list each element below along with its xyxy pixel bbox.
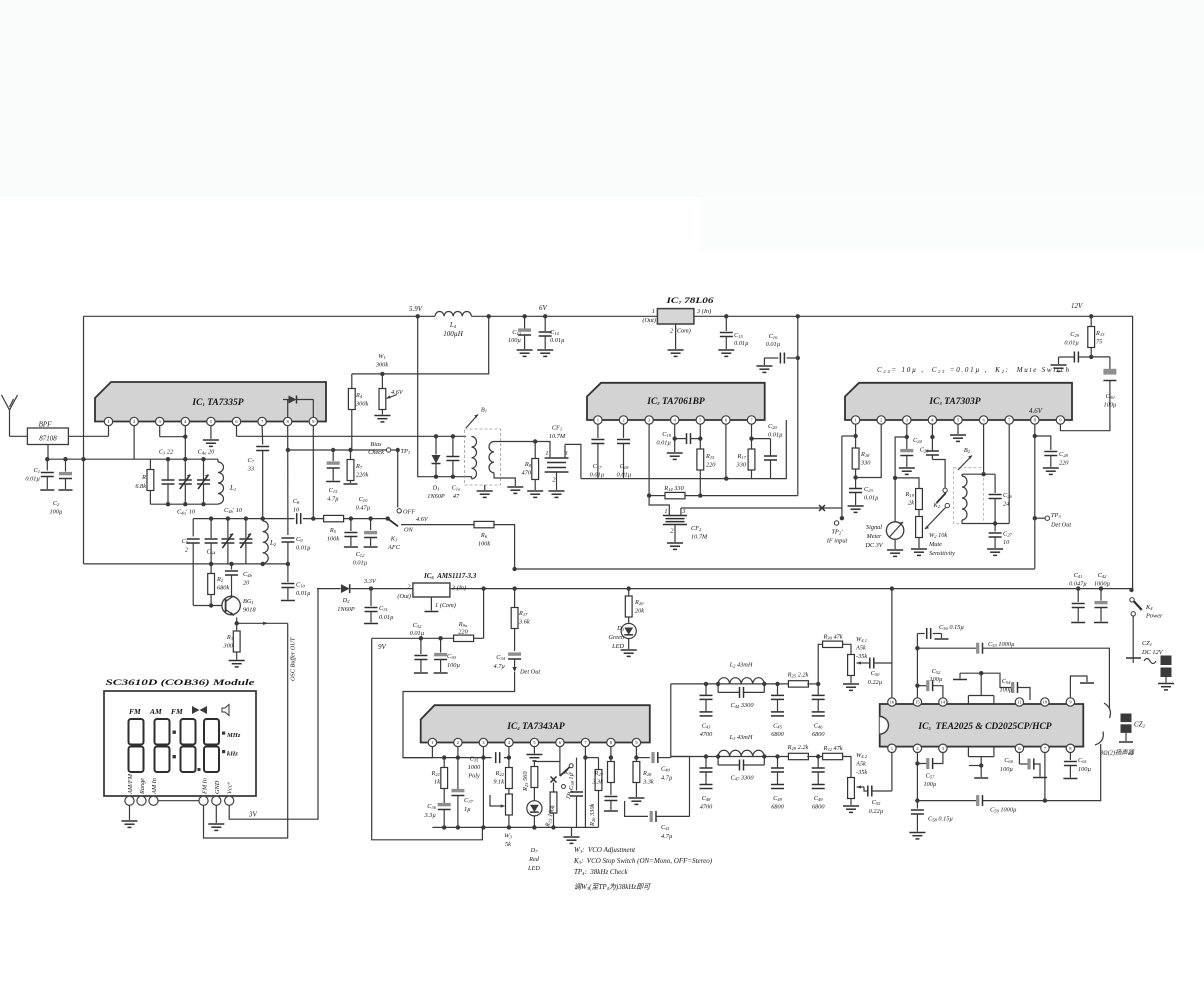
wire 6V power rail top — [84, 316, 1133, 590]
ground IC1 pin5 — [203, 426, 219, 447]
svg-text:6.8k: 6.8k — [135, 483, 146, 490]
resistor R15 220 — [697, 424, 716, 498]
svg-text:-35k: -35k — [856, 653, 867, 660]
resistor R18 330 — [842, 424, 871, 488]
svg-text:300k: 300k — [355, 401, 368, 408]
wire IC4 pin3 drop — [481, 758, 485, 830]
LED D3 green — [608, 623, 636, 656]
svg-text:IC4 TA7343AP: IC4 TA7343AP — [506, 722, 565, 732]
svg-text:C43: C43 — [702, 722, 712, 729]
node 9V rail — [372, 586, 486, 651]
capacitor C18 0.01u — [617, 424, 632, 478]
svg-text:3.3k: 3.3k — [642, 779, 654, 786]
svg-text:BG1: BG1 — [243, 598, 254, 605]
capacitor C30 100u — [1091, 357, 1117, 409]
svg-text:FM: FM — [129, 707, 141, 716]
svg-text:R29 2.2k: R29 2.2k — [787, 744, 809, 751]
svg-text:R19: R19 — [905, 491, 915, 498]
jack CZ1 DC 12V — [1126, 616, 1174, 690]
IC1 internal diode loop — [283, 396, 313, 418]
capacitor C41 0.047u — [1069, 572, 1087, 623]
speaker connector break top — [1104, 703, 1110, 718]
capacitor C32 0.01u — [410, 622, 428, 673]
svg-text:C18: C18 — [620, 463, 630, 470]
wire TP2 entry — [826, 436, 848, 545]
svg-text:Meter: Meter — [865, 533, 882, 540]
BPF 87108 filter — [27, 421, 108, 460]
svg-text:4.7µ: 4.7µ — [661, 833, 673, 840]
node TP3 Det Out — [1033, 512, 1072, 529]
capacitor C42 1000u — [1094, 572, 1111, 623]
svg-text:470: 470 — [522, 470, 532, 477]
IC1 TA7335P block — [95, 382, 326, 426]
svg-text:W1: W1 — [378, 353, 386, 360]
svg-text:IC1 TA7335P: IC1 TA7335P — [191, 398, 243, 408]
capacitor C1 0.01u — [25, 457, 54, 490]
svg-text:100µ: 100µ — [929, 676, 942, 683]
resistor R17 330 — [736, 424, 755, 478]
svg-text:1µ: 1µ — [464, 806, 471, 813]
filter top channel L2a — [671, 661, 826, 738]
variable capacitor C4A trim — [197, 457, 210, 504]
svg-text:6800: 6800 — [812, 804, 825, 811]
svg-text:C19: C19 — [662, 431, 672, 438]
wire IC3 pin2 loop — [856, 424, 882, 477]
resistor R23 560 — [522, 762, 560, 801]
IC5 pins 4-5 bridge — [967, 747, 969, 757]
svg-text:R5: R5 — [329, 527, 337, 534]
ground IC4 pin5 — [526, 747, 542, 761]
discriminator B2 — [954, 424, 996, 523]
svg-text:C47 3300: C47 3300 — [731, 775, 755, 782]
svg-text:L2 43mH: L2 43mH — [729, 661, 753, 668]
signal meter — [864, 437, 906, 556]
wire B1 secondary top to CF1 — [494, 439, 550, 457]
wire IC5 pin9 ground — [1070, 676, 1094, 698]
wire IC5 pins12-13 riser — [953, 671, 983, 696]
module band icons — [129, 705, 229, 717]
svg-text:4.6V: 4.6V — [1029, 407, 1043, 415]
svg-text:3 (In): 3 (In) — [696, 308, 711, 315]
capacitor C17 0.01u — [590, 424, 605, 478]
LED D7 red — [527, 801, 542, 872]
node 6V — [487, 304, 548, 318]
capacitor C55 0.22u — [864, 786, 892, 816]
wire IC1 pin6 to IF line — [237, 426, 467, 437]
svg-text:100µ: 100µ — [447, 662, 460, 669]
resistor R17b 3.6k — [511, 589, 530, 651]
svg-text:10: 10 — [1043, 700, 1048, 705]
resistor R3 300 — [223, 618, 245, 667]
svg-text:C54: C54 — [1002, 678, 1012, 685]
wire TP1 to K1 — [397, 450, 399, 508]
svg-text:C10: C10 — [359, 496, 369, 503]
svg-text:3V: 3V — [248, 811, 258, 819]
svg-text:R14 330: R14 330 — [663, 485, 684, 492]
resistor R1 6.8k — [135, 459, 153, 504]
capacitor C57 100u — [917, 753, 943, 789]
svg-text:0.22µ: 0.22µ — [869, 808, 884, 815]
svg-text:9.1k: 9.1k — [493, 779, 504, 786]
svg-text:0.01µ: 0.01µ — [296, 590, 311, 597]
svg-text:C3 22: C3 22 — [159, 449, 174, 456]
switch K3 — [551, 747, 574, 783]
svg-text:C42: C42 — [1098, 572, 1108, 579]
capacitor C28 220 — [1033, 424, 1070, 569]
capacitor C5 2 — [182, 519, 223, 606]
svg-text:R23 560: R23 560 — [522, 771, 529, 792]
svg-text:C56 0.15µ: C56 0.15µ — [939, 624, 964, 631]
capacitor C16 0.01u — [756, 314, 800, 496]
capacitor C19 0.01u — [656, 424, 702, 459]
wire IC2 pin6 drop — [725, 424, 727, 478]
svg-text:C38 1µ: C38 1µ — [568, 772, 575, 790]
label Bias Check TP1 — [368, 441, 410, 456]
svg-text:4700: 4700 — [700, 804, 713, 811]
wire IC3 return rail — [515, 568, 1035, 570]
svg-text:IC5 TEA2025 & CD2025CP/HCP: IC5 TEA2025 & CD2025CP/HCP — [917, 722, 1051, 732]
IC5 TEA2025 block — [880, 696, 1084, 757]
wire 3.3V rail — [317, 567, 1134, 592]
capacitor C29 0.01u — [1051, 331, 1090, 371]
svg-text:CF1: CF1 — [552, 425, 562, 432]
wire top channel to R26 — [671, 634, 851, 758]
svg-text:9018: 9018 — [243, 607, 256, 614]
svg-text:100µ: 100µ — [999, 687, 1012, 694]
svg-text:调W3(至TP4为)38kHz即可: 调W3(至TP4为)38kHz即可 — [574, 883, 651, 891]
svg-text:D1: D1 — [432, 485, 440, 492]
svg-text:24: 24 — [1003, 501, 1009, 508]
wire Det Out to IC4 pin1 — [403, 672, 515, 758]
variable capacitor C4B trim — [239, 516, 252, 564]
svg-text:3.3k: 3.3k — [591, 779, 603, 786]
svg-text:11: 11 — [1017, 700, 1022, 705]
svg-text:0.01µ: 0.01µ — [617, 472, 632, 479]
svg-text:680k: 680k — [217, 585, 229, 592]
svg-text:8Ω(2)扬声器: 8Ω(2)扬声器 — [1100, 749, 1135, 757]
wire IC5 pin2 column — [915, 753, 919, 809]
svg-text:0.01µ: 0.01µ — [864, 495, 879, 502]
wire bias line — [288, 448, 400, 452]
ground IC3 pin5 — [950, 424, 966, 441]
svg-text:16: 16 — [890, 700, 895, 705]
svg-text:(Out): (Out) — [642, 317, 656, 324]
svg-text:A5k: A5k — [855, 761, 866, 768]
capacitor C9 0.01u — [281, 536, 311, 566]
svg-text:W2 10k: W2 10k — [929, 532, 947, 539]
capacitor C61 100u — [1063, 753, 1091, 779]
svg-text:2k: 2k — [908, 500, 914, 507]
svg-text:IC7 78L06: IC7 78L06 — [665, 295, 714, 305]
svg-text:R17: R17 — [518, 610, 528, 617]
svg-text:220: 220 — [706, 462, 716, 469]
switch K2 — [932, 460, 949, 510]
capacitor C50 0.22u — [866, 658, 892, 687]
wire IF line to TP2 — [681, 505, 842, 511]
resistor R6 100k — [401, 516, 515, 569]
wire 5.9V drop — [418, 316, 472, 476]
svg-text:C16: C16 — [769, 333, 779, 340]
svg-text:DC 3V: DC 3V — [864, 542, 883, 549]
wire B1 secondary bottom — [494, 473, 523, 494]
svg-text:AM In: AM In — [151, 778, 158, 795]
svg-text:TP1: TP1 — [401, 448, 411, 455]
svg-text:R: R — [141, 474, 146, 481]
svg-text:TP2': TP2' — [831, 529, 843, 536]
svg-text:C61: C61 — [1078, 757, 1087, 764]
svg-text:6V: 6V — [539, 304, 548, 312]
speaker connector break bottom — [1095, 732, 1103, 746]
svg-text:Vcc°: Vcc° — [227, 782, 234, 794]
svg-text:SC3610D (COB36) Module: SC3610D (COB36) Module — [106, 677, 255, 687]
svg-text:C45: C45 — [773, 722, 783, 729]
capacitor C27 10 — [987, 524, 1012, 556]
svg-text:220: 220 — [458, 629, 468, 636]
capacitor C1a 47 — [446, 434, 461, 500]
variable capacitor C4B — [221, 516, 234, 564]
svg-text:Det Out: Det Out — [519, 669, 540, 676]
wire IC1 pin2 drop to AGC line — [47, 426, 150, 460]
svg-text:C49: C49 — [773, 795, 783, 802]
svg-text:B2: B2 — [964, 447, 971, 454]
wire OSC buffer out — [204, 622, 297, 838]
svg-text:4700: 4700 — [700, 731, 713, 738]
svg-text:10.7M: 10.7M — [691, 534, 708, 541]
svg-text:C5: C5 — [182, 538, 189, 545]
svg-text:47: 47 — [453, 493, 460, 500]
capacitor C2 100u — [49, 457, 72, 516]
potentiometer W4.1 — [843, 636, 867, 690]
wire IC5 pin16 feed — [890, 586, 894, 697]
svg-text:1000µ: 1000µ — [1094, 581, 1111, 588]
svg-text:5k: 5k — [505, 841, 511, 848]
resistor R7 220k — [344, 450, 369, 484]
svg-text:C2: C2 — [53, 500, 60, 507]
svg-text:Green: Green — [608, 634, 624, 641]
IC4 TA7343AP block — [421, 705, 650, 747]
svg-text:0.01µ: 0.01µ — [353, 560, 368, 567]
svg-text:D2: D2 — [342, 597, 351, 604]
svg-text:R15: R15 — [705, 453, 715, 460]
capacitor C8 10 — [293, 498, 301, 524]
svg-text:C44 3300: C44 3300 — [731, 702, 755, 709]
svg-text:R18: R18 — [860, 451, 870, 458]
svg-text:6800: 6800 — [771, 731, 784, 738]
module pins left — [125, 796, 158, 805]
svg-text:AM: AM — [149, 707, 162, 716]
svg-text:C30: C30 — [1106, 393, 1116, 400]
ceramic filter CF2 10.7M — [649, 496, 708, 550]
svg-text:C52: C52 — [932, 668, 942, 675]
svg-text:C1: C1 — [34, 467, 41, 474]
capacitor C26 24 — [989, 474, 1013, 526]
svg-text:OFF: OFF — [403, 509, 415, 516]
resistor R27 3.3k — [591, 747, 618, 811]
capacitor C15 0.01u — [718, 314, 749, 356]
switch K4 power — [1130, 598, 1163, 620]
svg-text:R30 47k: R30 47k — [822, 634, 842, 641]
resistor R20 20k — [625, 586, 644, 623]
wire IC5 pin7 drop — [1043, 753, 1047, 803]
capacitor C15 4.7u bias — [326, 450, 340, 503]
svg-text:330: 330 — [736, 462, 747, 469]
svg-text:100µ: 100µ — [1000, 766, 1013, 773]
transistor BG1 9018 — [222, 596, 257, 616]
svg-text:R3: R3 — [226, 634, 234, 641]
filter bottom channel L3 — [671, 734, 826, 811]
svg-text:C4b: C4b — [243, 571, 253, 578]
svg-text:IC6 AMS1117-3.3: IC6 AMS1117-3.3 — [423, 572, 477, 580]
wire IC2 pin3 column — [647, 424, 651, 498]
resistor R4 300k — [348, 374, 368, 450]
resistor R5 100k — [324, 515, 344, 542]
svg-text:87108: 87108 — [39, 435, 57, 443]
svg-text:100µ: 100µ — [49, 509, 62, 516]
capacitor C56 0.15u — [917, 624, 964, 648]
variable capacitor C4A — [179, 449, 215, 505]
wire IC2 caps bottom line — [581, 420, 786, 481]
svg-text:LED: LED — [611, 643, 624, 650]
svg-text:C41: C41 — [661, 824, 670, 831]
svg-text:C4a 20: C4a 20 — [198, 449, 216, 456]
svg-text:-35k: -35k — [856, 769, 867, 776]
capacitor C11 — [344, 516, 358, 547]
svg-text:C48: C48 — [702, 795, 712, 802]
svg-text:6800: 6800 — [812, 731, 825, 738]
svg-text:C37: C37 — [464, 797, 474, 804]
svg-text:0.01µ: 0.01µ — [734, 340, 749, 347]
svg-text:C36: C36 — [427, 803, 437, 810]
svg-text:4.6V: 4.6V — [416, 516, 429, 523]
svg-text:3 (In): 3 (In) — [451, 585, 466, 592]
svg-text:4.7µ: 4.7µ — [494, 663, 506, 670]
svg-text:0.01µ: 0.01µ — [410, 630, 425, 637]
svg-text:R28: R28 — [642, 770, 652, 777]
svg-text:C24= 10µ , C25 =0.01µ , K2:: C24= 10µ , C25 =0.01µ , K2: Mute Switch — [877, 366, 1070, 374]
svg-text:0.47µ: 0.47µ — [356, 505, 371, 512]
svg-text:33: 33 — [247, 466, 254, 473]
svg-text:R6: R6 — [480, 532, 488, 539]
wire tank1 bottom — [150, 502, 242, 516]
svg-text:1: 1 — [545, 450, 548, 457]
wire big loop left vertical — [83, 316, 85, 564]
svg-text:6800: 6800 — [771, 804, 784, 811]
switch K1 AFC — [386, 509, 416, 552]
svg-text:100µH: 100µH — [443, 330, 464, 338]
capacitor C14 0.01u — [537, 316, 565, 356]
svg-text:3.3µ: 3.3µ — [424, 812, 437, 819]
wire IC4 ground rail — [432, 825, 598, 843]
svg-text:10: 10 — [293, 507, 300, 514]
svg-text:14: 14 — [941, 700, 946, 705]
svg-text:C59 1000µ: C59 1000µ — [990, 807, 1017, 814]
svg-text:C46: C46 — [814, 722, 824, 729]
svg-text:K1: K1 — [390, 536, 398, 543]
svg-text:R22: R22 — [495, 770, 505, 777]
svg-text:3.3V: 3.3V — [363, 578, 377, 585]
svg-text:C14: C14 — [550, 329, 560, 336]
capacitor C10 0.01u — [281, 564, 311, 601]
svg-text:Signal: Signal — [866, 524, 882, 531]
diode D2 1N60P — [337, 578, 377, 613]
svg-text:1N60P: 1N60P — [337, 606, 355, 613]
svg-text:L3 43mH: L3 43mH — [729, 734, 753, 741]
svg-text:1: 1 — [664, 508, 667, 515]
svg-text:C41: C41 — [1074, 572, 1083, 579]
svg-text:C50: C50 — [871, 670, 881, 677]
node 12V — [1071, 302, 1093, 318]
capacitor C25 — [920, 424, 939, 459]
svg-text:DC 12V: DC 12V — [1141, 649, 1164, 656]
svg-text:IC2 TA7061BP: IC2 TA7061BP — [646, 397, 705, 407]
svg-text:330: 330 — [860, 460, 871, 467]
svg-text:C29: C29 — [1070, 331, 1080, 338]
svg-text:R20: R20 — [634, 599, 644, 606]
svg-text:IF input: IF input — [826, 538, 848, 545]
inductor L1 — [218, 459, 236, 504]
svg-text:10: 10 — [1003, 539, 1010, 546]
resistor R32 47k bottom — [818, 745, 851, 778]
svg-text:12V: 12V — [1071, 302, 1083, 310]
svg-text:kHz: kHz — [227, 751, 238, 758]
resistor R14 330 — [649, 485, 798, 499]
svg-text:300: 300 — [223, 643, 234, 650]
svg-text:W3: VCO Adjustment: W3: VCO Adjustment — [574, 846, 636, 854]
speaker CZ2 — [1100, 714, 1146, 757]
svg-text:220k: 220k — [356, 472, 368, 479]
svg-text:BPF: BPF — [39, 421, 53, 429]
IC7 78L06 regulator — [642, 295, 714, 356]
svg-text:0.01µ: 0.01µ — [766, 341, 781, 348]
svg-text:Check: Check — [368, 449, 384, 456]
capacitor C59 1000u — [917, 744, 1100, 814]
svg-text:C24: C24 — [913, 437, 923, 444]
svg-text:C4a' 10: C4a' 10 — [177, 509, 196, 516]
wire B2 bottom line — [962, 424, 1009, 523]
svg-text:0.047µ: 0.047µ — [1069, 581, 1087, 588]
svg-text:R21: R21 — [431, 770, 440, 777]
ground module AM/FM pin — [122, 805, 138, 827]
svg-text:K2: K2 — [933, 502, 941, 509]
wire IC3 pin9 to C30 — [1060, 390, 1110, 431]
pale top band — [0, 0, 1204, 197]
resistor R2 680k — [208, 562, 230, 608]
svg-text:5.9V: 5.9V — [409, 305, 423, 313]
resistor R13 75 — [1088, 316, 1105, 359]
svg-text:2 (Com): 2 (Com) — [670, 328, 691, 335]
wire tank1 top line — [150, 458, 218, 460]
svg-text:K3: VCO Stop Switch (ON=Mono,: K3: VCO Stop Switch (ON=Mono, OFF=Stereo… — [573, 857, 713, 865]
svg-text:W3: W3 — [504, 833, 512, 840]
svg-text:C15: C15 — [329, 487, 339, 494]
svg-text:20k: 20k — [635, 608, 644, 615]
svg-text:D7: D7 — [530, 847, 539, 854]
svg-text:20: 20 — [243, 580, 250, 587]
svg-text:C23: C23 — [864, 486, 874, 493]
svg-text:R8: R8 — [524, 461, 532, 468]
svg-text:R25 2.2k: R25 2.2k — [787, 671, 809, 678]
wire AM In to FM In link — [158, 800, 199, 802]
svg-text:0.01µ: 0.01µ — [25, 476, 40, 483]
svg-text:C27: C27 — [1003, 531, 1013, 538]
IC2 TA7061BP block — [587, 383, 765, 424]
svg-text:C15: C15 — [734, 332, 744, 339]
svg-text:100µ: 100µ — [1103, 402, 1116, 409]
label C10 0.47u — [356, 496, 371, 512]
svg-text:C34: C34 — [496, 654, 506, 661]
capacitor C23 0.01u — [848, 486, 879, 512]
capacitor C60 100u — [1000, 753, 1047, 778]
